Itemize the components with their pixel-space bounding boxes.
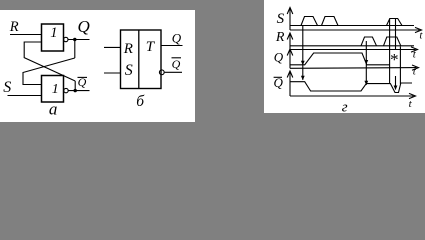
Q time axis with arrow <box>290 67 417 70</box>
junction dot Q (panel a) <box>73 38 76 41</box>
svg-text:R: R <box>123 41 133 57</box>
reference line V2 (R rise) with arrows <box>365 41 367 85</box>
logic gate D1 (OR-NOT, top) <box>42 24 64 51</box>
S waveform pulse 3 <box>387 19 403 26</box>
white panel right (timing diagram g) <box>264 0 425 113</box>
Qbar time axis with arrow <box>290 95 414 97</box>
svg-text:Q: Q <box>172 30 182 45</box>
svg-text:Q: Q <box>172 57 181 71</box>
svg-text:Q: Q <box>274 50 284 65</box>
svg-text:б: б <box>136 93 145 110</box>
wire Q output (panel b) <box>161 45 183 47</box>
svg-text:г: г <box>342 99 348 115</box>
svg-text:R: R <box>275 30 285 45</box>
R waveform low line <box>290 45 414 47</box>
R time axis with arrow <box>290 49 416 51</box>
white panel left (circuit a) <box>0 10 195 122</box>
inverter bubble gate D2 output <box>64 88 68 92</box>
wire R input to gate D1 <box>10 34 42 36</box>
reference line V4 (forbidden zone) with arrow <box>395 19 397 51</box>
S time axis with arrow <box>290 29 420 31</box>
svg-text:*: * <box>389 50 398 69</box>
svg-text:S: S <box>3 79 11 96</box>
svg-text:t: t <box>419 30 423 42</box>
svg-text:T: T <box>146 39 156 55</box>
divider line in block T <box>138 30 140 89</box>
overline of Qbar (panel b) <box>172 57 182 59</box>
trigger block T (panel b) <box>121 30 162 89</box>
svg-text:Q: Q <box>78 17 90 36</box>
svg-text:1: 1 <box>52 82 59 97</box>
R waveform pulse 2 <box>384 37 401 46</box>
S waveform pulse 1 <box>301 17 318 26</box>
wire diagonal Q to gate D2 input <box>23 58 75 85</box>
Q waveform <box>290 53 390 65</box>
junction dot Qbar (panel a) <box>74 89 77 92</box>
wire feedback from Qbar up <box>74 81 76 91</box>
wire R input (panel b) <box>104 46 121 48</box>
S waveform pulse 2 <box>322 17 339 26</box>
wire Q output (panel a) <box>68 39 90 41</box>
svg-text:1: 1 <box>50 25 57 41</box>
S waveform low line <box>290 25 414 27</box>
svg-text:S: S <box>277 11 285 27</box>
reference line V5 (forbidden zone end) <box>399 47 401 85</box>
wire Qbar output (panel b) <box>165 71 182 73</box>
Q value axis with arrow <box>289 51 291 69</box>
svg-text:а: а <box>49 100 58 119</box>
overline of Qbar (panel a) <box>78 76 88 78</box>
inverter bubble Qbar output (panel b) <box>159 70 164 75</box>
wire S input to gate D2 <box>8 95 42 97</box>
svg-text:t: t <box>409 98 413 110</box>
logic gate D2 (OR-NOT, bottom) <box>42 76 64 103</box>
Qbar value axis with arrow <box>289 73 291 97</box>
overline of Qbar label (timing) <box>274 76 282 78</box>
R value axis with arrow <box>289 34 291 50</box>
wire diagonal Qbar to gate D1 input <box>24 42 75 81</box>
svg-text:S: S <box>125 62 133 79</box>
R waveform pulse 1 <box>361 37 377 46</box>
wire S input (panel b) <box>104 72 121 74</box>
inverter bubble gate D1 output <box>64 37 68 41</box>
S value axis with arrow <box>289 9 291 30</box>
Qbar waveform <box>290 82 412 93</box>
wire Qbar output (panel a) <box>68 90 89 92</box>
wire feedback from Q down <box>74 40 76 59</box>
svg-text:R: R <box>9 19 19 35</box>
reference line V1 (S rise) with arrows <box>302 26 304 80</box>
reference line V3 (forbidden zone start) <box>389 19 391 85</box>
